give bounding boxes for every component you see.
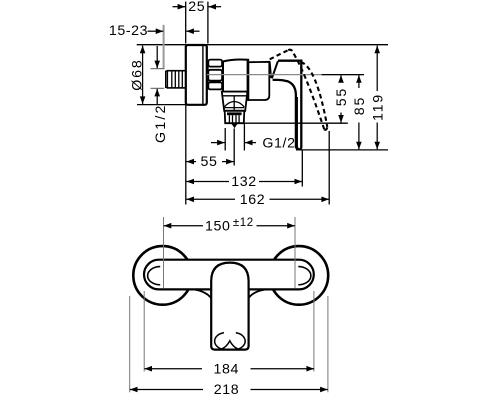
- svg-text:184: 184: [214, 361, 239, 377]
- svg-text:55: 55: [334, 87, 350, 106]
- svg-text:132: 132: [231, 174, 256, 190]
- svg-text:G1/2: G1/2: [153, 103, 169, 143]
- svg-text:15-23: 15-23: [109, 23, 148, 39]
- svg-text:55: 55: [201, 154, 218, 170]
- svg-text:162: 162: [240, 192, 265, 208]
- svg-text:25: 25: [188, 0, 205, 15]
- svg-text:G1/2: G1/2: [262, 135, 295, 151]
- svg-text:119: 119: [370, 93, 386, 121]
- svg-text:±12: ±12: [233, 217, 254, 229]
- svg-text:Ø68: Ø68: [130, 58, 146, 90]
- svg-text:85: 85: [352, 96, 368, 115]
- svg-text:218: 218: [214, 382, 239, 398]
- svg-text:150: 150: [205, 219, 230, 235]
